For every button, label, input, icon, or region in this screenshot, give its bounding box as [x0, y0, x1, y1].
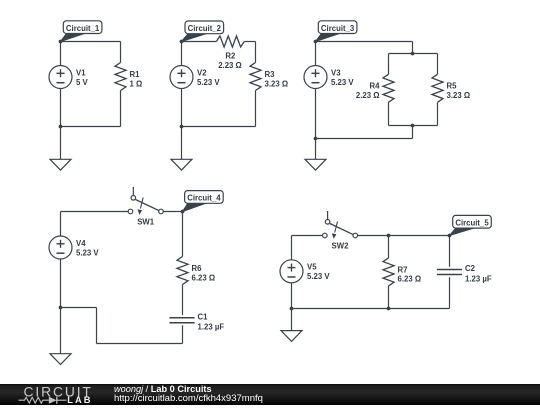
- svg-text:1 Ω: 1 Ω: [130, 79, 143, 88]
- wire right rail circuit1: [120, 42, 122, 127]
- ground circuit4: [50, 354, 71, 365]
- wire top circuit3: [316, 42, 413, 54]
- voltage source V3 5.23 V: [304, 66, 354, 89]
- svg-text:V5: V5: [307, 263, 317, 272]
- footer url text: [114, 393, 263, 404]
- net label Circuit_5: [450, 215, 492, 235]
- switch SW2: [323, 211, 358, 251]
- node circuit4 bottom-left: [59, 306, 63, 310]
- net label Circuit_4: [183, 191, 224, 212]
- svg-text:3.23 Ω: 3.23 Ω: [265, 79, 289, 88]
- CircuitLab logo text LAB: [67, 395, 92, 405]
- wire top-left circuit2: [182, 41, 217, 43]
- svg-text:5.23 V: 5.23 V: [76, 248, 99, 257]
- wire top-right circuit5: [358, 235, 450, 237]
- voltage source V2 5.23 V: [170, 66, 220, 89]
- svg-text:R7: R7: [398, 265, 408, 274]
- node circuit4 top-right: [181, 210, 185, 214]
- wire right rail circuit2: [255, 42, 257, 127]
- resistor R2 2.23 Ohm: [216, 36, 244, 70]
- svg-text:R3: R3: [265, 70, 276, 79]
- voltage source V4 5.23 V: [49, 236, 99, 259]
- node circuit5 R7 top: [387, 234, 391, 238]
- ground circuit2: [171, 159, 192, 170]
- svg-text:1.23 µF: 1.23 µF: [465, 274, 492, 283]
- wire bottom circuit1: [61, 126, 121, 128]
- svg-text:2.23 Ω: 2.23 Ω: [356, 91, 380, 100]
- wire left rail circuit1: [60, 42, 62, 160]
- svg-text:SW2: SW2: [332, 242, 350, 251]
- footer bar: [0, 384, 540, 405]
- resistor R5 3.23 Ohm: [432, 74, 470, 102]
- net label Circuit_3: [316, 21, 357, 42]
- voltage source V1 5 V: [49, 66, 89, 89]
- svg-text:R6: R6: [192, 264, 203, 273]
- wire top circuit1: [61, 41, 121, 43]
- resistor R4 2.23 Ohm: [356, 74, 394, 102]
- svg-text:Circuit_1: Circuit_1: [66, 24, 100, 33]
- node circuit3 top junction: [411, 52, 415, 56]
- wire switch to node circuit4: [163, 211, 182, 213]
- node circuit2 top-left: [180, 40, 184, 44]
- wire bottom route circuit4: [61, 308, 183, 344]
- CircuitLab logo resistor-diode glyph: [19, 397, 67, 404]
- wire parallel bottom bar circuit3: [389, 102, 438, 125]
- svg-text:R4: R4: [370, 82, 381, 91]
- svg-text:6.23 Ω: 6.23 Ω: [398, 275, 422, 284]
- svg-text:Circuit_3: Circuit_3: [321, 24, 355, 33]
- node circuit5 R7 bottom: [387, 307, 391, 311]
- svg-text:5.23 V: 5.23 V: [307, 272, 330, 281]
- node circuit5 C2 top: [448, 234, 452, 238]
- voltage source V5 5.23 V: [280, 260, 330, 283]
- wire R7 rail circuit5: [388, 236, 390, 309]
- wire left rail circuit3: [315, 42, 317, 160]
- capacitor C2 1.23 uF: [437, 264, 492, 283]
- footer title text: [114, 384, 212, 394]
- ground circuit3: [305, 159, 326, 170]
- wire left rail circuit4: [60, 212, 62, 354]
- capacitor C1 1.23 uF: [169, 312, 224, 331]
- resistor R3 3.23 Ohm: [250, 63, 288, 91]
- svg-text:C1: C1: [198, 312, 209, 321]
- svg-text:V2: V2: [197, 68, 207, 77]
- node circuit5 bottom-left: [290, 307, 294, 311]
- wire top-right circuit2: [244, 41, 255, 43]
- ground circuit1: [50, 159, 71, 170]
- wire bottom circuit3: [316, 126, 413, 139]
- node circuit3 bottom junction: [411, 124, 415, 128]
- wire top-left circuit4: [61, 211, 129, 213]
- node circuit3 top-left: [314, 40, 318, 44]
- switch SW1: [128, 187, 163, 227]
- svg-text:2.23 Ω: 2.23 Ω: [218, 61, 242, 70]
- svg-text:Circuit_4: Circuit_4: [187, 194, 221, 203]
- ground circuit5: [281, 331, 302, 342]
- svg-text:Circuit_2: Circuit_2: [188, 24, 222, 33]
- node circuit3 bottom-left: [314, 137, 318, 141]
- resistor R1 1 Ohm: [115, 63, 142, 91]
- net label Circuit_1: [61, 21, 102, 42]
- wire left rail circuit5: [291, 236, 293, 331]
- svg-text:1.23 µF: 1.23 µF: [198, 323, 225, 332]
- svg-text:6.23 Ω: 6.23 Ω: [192, 273, 216, 282]
- svg-text:V1: V1: [76, 68, 86, 77]
- svg-text:5.23 V: 5.23 V: [197, 78, 220, 87]
- wire C2 rail circuit5: [449, 236, 451, 309]
- svg-text:V4: V4: [76, 239, 86, 248]
- CircuitLab logo text CIRCUIT: [24, 384, 93, 399]
- svg-text:R1: R1: [130, 70, 141, 79]
- svg-text:3.23 Ω: 3.23 Ω: [447, 91, 471, 100]
- wire bottom circuit2: [182, 126, 256, 128]
- node circuit1 bottom-left: [59, 125, 63, 129]
- svg-text:LAB: LAB: [67, 395, 92, 405]
- svg-text:5.23 V: 5.23 V: [331, 78, 354, 87]
- svg-text:C2: C2: [465, 264, 476, 273]
- wire bottom circuit5: [292, 308, 450, 310]
- node circuit1 top-left: [59, 40, 63, 44]
- resistor R6 6.23 Ohm: [177, 257, 215, 285]
- svg-text:SW1: SW1: [137, 218, 155, 227]
- resistor R7 6.23 Ohm: [383, 258, 421, 286]
- net label Circuit_2: [182, 21, 224, 42]
- svg-text:R2: R2: [225, 52, 236, 61]
- svg-text:V3: V3: [331, 68, 341, 77]
- wire parallel top bar circuit3: [389, 54, 438, 75]
- svg-text:R5: R5: [447, 82, 458, 91]
- svg-text:5 V: 5 V: [76, 78, 89, 87]
- wire right rail circuit4: [182, 212, 184, 344]
- svg-text:Circuit_5: Circuit_5: [455, 219, 489, 228]
- wire top-left circuit5: [292, 235, 323, 237]
- node circuit2 bottom-left: [180, 125, 184, 129]
- wire left rail circuit2: [181, 42, 183, 160]
- svg-text:http://circuitlab.com/cfkh4x93: http://circuitlab.com/cfkh4x937mnfq: [114, 393, 263, 404]
